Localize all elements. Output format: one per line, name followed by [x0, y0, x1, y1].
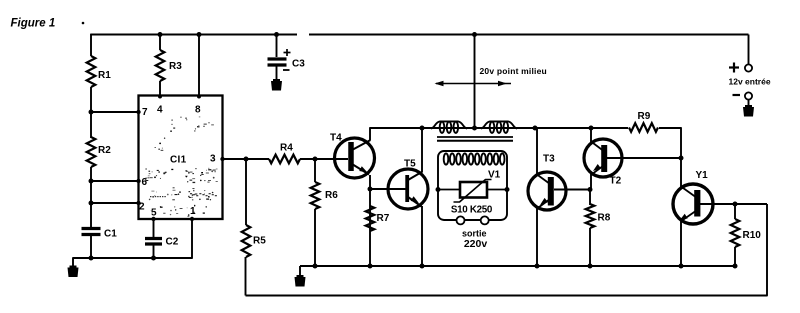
- node pin7 exit: [136, 110, 140, 114]
- transistor T4: [330, 133, 375, 179]
- svg-text:R7: R7: [377, 213, 390, 224]
- wire R4 to T4 base: [300, 158, 348, 160]
- wire ground stem: [299, 266, 301, 277]
- svg-text:T4: T4: [330, 133, 342, 144]
- svg-text:Y1: Y1: [696, 170, 709, 181]
- node pin5 exit: [151, 217, 155, 221]
- node pin6 exit: [136, 179, 140, 183]
- svg-text:R5: R5: [253, 236, 266, 247]
- wire T3 emitter down: [536, 207, 538, 266]
- secondary winding: [444, 153, 505, 164]
- svg-text:R1: R1: [98, 70, 111, 81]
- resistor R5: [242, 225, 251, 257]
- transformer primary right winding: [481, 121, 517, 133]
- resistor R2: [87, 137, 96, 167]
- stray dot: [82, 22, 85, 25]
- transistor T3: [528, 154, 566, 211]
- svg-text:R10: R10: [743, 230, 762, 241]
- node T2 collector junction: [589, 126, 594, 131]
- node pin3 exit: [220, 157, 224, 161]
- svg-text:12v entrée: 12v entrée: [729, 77, 771, 87]
- node pin8 top junction: [197, 32, 202, 37]
- wire C2 to ground rail: [153, 246, 155, 259]
- resistor R1: [87, 56, 96, 87]
- node R3 top junction: [158, 32, 163, 37]
- wire R3 to pin 4: [159, 81, 161, 96]
- node R10 tap: [733, 202, 738, 207]
- resistor R9: [629, 123, 658, 132]
- minus sign: [733, 94, 741, 96]
- wire T5 emitter down: [421, 206, 423, 266]
- transistor T5: [388, 159, 428, 210]
- svg-text:7: 7: [142, 107, 148, 118]
- wire R8 to emitter rail: [589, 228, 591, 266]
- transformer secondary box: [438, 151, 507, 220]
- wire T4 emitter / R7 column: [369, 175, 371, 266]
- svg-text:R2: R2: [98, 145, 111, 156]
- svg-text:20v point milieu: 20v point milieu: [480, 66, 547, 76]
- svg-text:CI1: CI1: [170, 155, 187, 166]
- wire T2 collector up: [590, 128, 592, 142]
- wire rail to pin 8: [198, 35, 200, 96]
- node pin7 junction: [89, 110, 94, 115]
- svg-text:C2: C2: [166, 237, 179, 248]
- node pin2 junction: [89, 201, 94, 206]
- node pin4 entry: [158, 95, 162, 99]
- wire C1 to ground rail: [90, 236, 92, 258]
- arrow 20v point milieu: [436, 83, 511, 85]
- wire R10 bottom: [734, 247, 736, 266]
- wire T5 collector up: [421, 128, 423, 172]
- transistor T2: [584, 139, 622, 187]
- ground left: [68, 268, 79, 278]
- wire pin 3 output: [223, 158, 270, 160]
- wire R6 top: [314, 159, 316, 182]
- IC CI1 box: [139, 96, 223, 220]
- svg-text:C1: C1: [104, 229, 117, 240]
- wire 12v input drop: [748, 35, 750, 65]
- capacitor C3: [268, 57, 287, 60]
- wire T3 base: [554, 189, 590, 191]
- svg-text:R4: R4: [280, 143, 293, 154]
- plus sign: [729, 66, 739, 68]
- terminal 12v plus: [745, 64, 752, 71]
- node T5 base tap: [368, 187, 373, 192]
- node pin6 junction: [89, 179, 94, 184]
- svg-text:V1: V1: [488, 170, 501, 181]
- resistor R3: [156, 50, 165, 81]
- node center tap: [472, 126, 477, 131]
- wire pin 5 to C2: [153, 219, 155, 237]
- node R5 tap: [244, 157, 249, 162]
- svg-text:220v: 220v: [464, 238, 488, 250]
- wire center tap: [474, 35, 476, 129]
- wire C3 to ground: [276, 67, 278, 82]
- resistor R6: [311, 182, 320, 209]
- wire to pin 2: [91, 202, 139, 204]
- node secondary right: [505, 187, 510, 192]
- node pin2 exit: [136, 201, 140, 205]
- node T2 base junction: [679, 156, 684, 161]
- wire to pin 7: [91, 111, 139, 113]
- svg-text:T3: T3: [543, 154, 555, 165]
- wire T3 collector up: [536, 128, 538, 175]
- ground 12v: [743, 107, 754, 117]
- wire T2 emitter down: [590, 174, 592, 190]
- wire T5 base: [370, 188, 407, 190]
- node T3 base / R8 junction: [588, 187, 593, 192]
- terminal 12v minus: [745, 92, 752, 99]
- wire R10 top: [734, 204, 736, 219]
- capacitor C2: [145, 237, 162, 240]
- node pin8 entry: [197, 95, 201, 99]
- wire top supply rail: [91, 34, 297, 36]
- wire Y1 emitter down: [680, 220, 682, 266]
- svg-text:R9: R9: [638, 111, 651, 122]
- wire minus to ground: [748, 100, 750, 107]
- svg-text:8: 8: [195, 105, 201, 116]
- wire R1 to R2: [90, 87, 92, 138]
- wire R5 column: [245, 159, 247, 225]
- node C1 junction: [89, 256, 94, 261]
- node secondary left: [436, 187, 441, 192]
- wire collector rail: [370, 127, 628, 129]
- wire rail to C3: [276, 35, 278, 58]
- svg-text:T2: T2: [610, 176, 622, 187]
- svg-text:R8: R8: [598, 213, 611, 224]
- svg-text:R6: R6: [325, 190, 338, 201]
- node R6 tap: [313, 157, 318, 162]
- IC interior noise speckles: [145, 117, 218, 217]
- wire rail to R3: [159, 35, 161, 51]
- node C2 junction: [151, 256, 156, 261]
- wire T2 base: [607, 157, 681, 159]
- svg-text:C3: C3: [292, 59, 305, 70]
- resistor R7: [366, 206, 375, 231]
- transformer core: [437, 136, 513, 138]
- transistor Y1: [673, 170, 713, 224]
- ground C3: [271, 81, 282, 91]
- svg-text:T5: T5: [404, 159, 416, 170]
- svg-text:sortie: sortie: [462, 229, 487, 239]
- svg-text:S10 K250: S10 K250: [451, 205, 493, 216]
- svg-text:4: 4: [157, 105, 163, 116]
- terminal sortie left: [457, 216, 465, 224]
- wire Y1 base to feedback: [699, 203, 767, 205]
- transformer primary left winding: [431, 121, 467, 133]
- svg-text:Figure 1: Figure 1: [11, 18, 56, 30]
- wire R6 to emitter rail: [314, 209, 316, 266]
- wire R8 top: [589, 190, 591, 206]
- resistor R10: [731, 219, 740, 247]
- resistor R8: [586, 204, 595, 228]
- wire bottom-left ground rail: [73, 258, 192, 267]
- wire to pin 6: [91, 180, 139, 182]
- svg-text:3: 3: [210, 154, 216, 165]
- wire T4 collector: [369, 127, 371, 140]
- wire R2 down to C1: [90, 167, 92, 227]
- wire left column top: [90, 34, 92, 56]
- wire feedback bottom rail: [246, 204, 768, 296]
- svg-text:1: 1: [190, 206, 196, 217]
- node T3 collector junction: [533, 126, 538, 131]
- ground center: [295, 277, 306, 287]
- wire R5 to feedback rail: [245, 257, 247, 296]
- terminal sortie right: [481, 216, 489, 224]
- svg-text:R3: R3: [169, 61, 182, 72]
- wire pin 1 down: [191, 219, 193, 259]
- node pin1 exit: [190, 217, 194, 221]
- varistor V1: [438, 170, 507, 203]
- wire emitter ground rail: [300, 265, 735, 267]
- wire R9 corner down to Y1: [680, 127, 682, 187]
- capacitor C1: [82, 227, 101, 230]
- node C3 junction: [274, 32, 279, 37]
- svg-text:5: 5: [151, 208, 157, 219]
- wire R9 to corner: [659, 127, 681, 129]
- resistor R4: [269, 155, 300, 164]
